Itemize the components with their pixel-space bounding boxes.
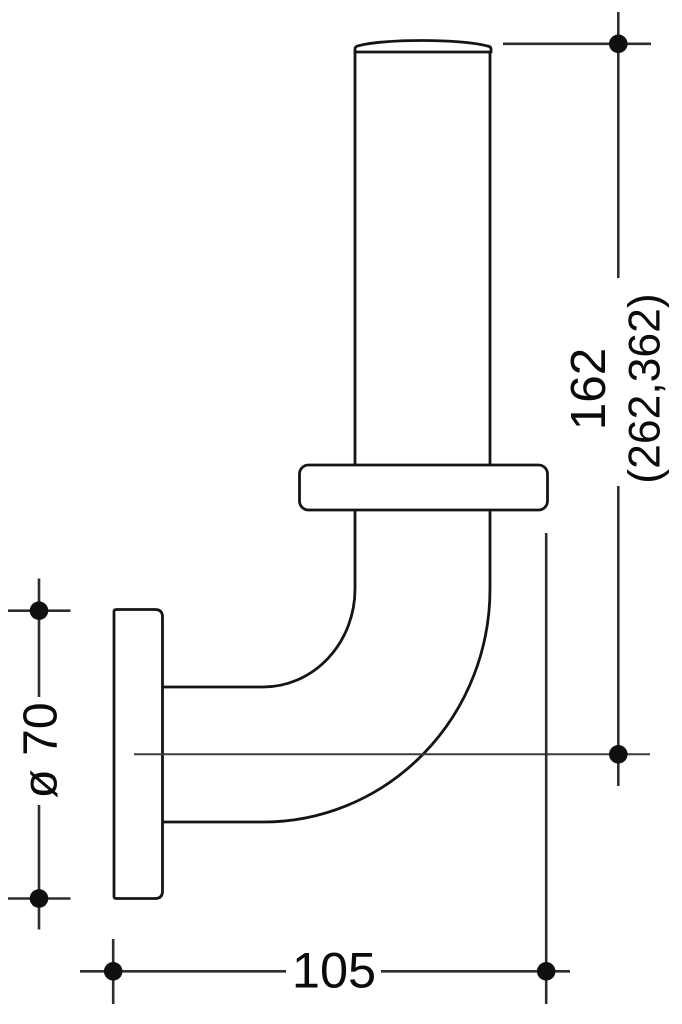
svg-text:ø 70: ø 70 <box>15 702 68 798</box>
svg-text:162: 162 <box>561 348 616 431</box>
svg-text:(262,362): (262,362) <box>621 293 670 484</box>
svg-text:105: 105 <box>292 941 376 998</box>
